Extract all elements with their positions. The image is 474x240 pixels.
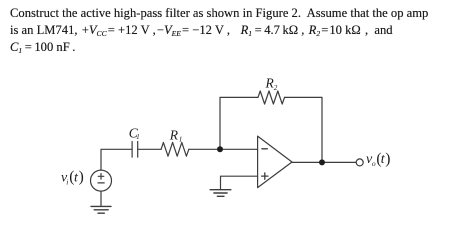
svg-text:R: R	[169, 128, 179, 143]
svg-text:): )	[79, 169, 84, 186]
svg-text:2: 2	[274, 84, 278, 92]
svg-text:1: 1	[136, 133, 140, 141]
svg-text:i: i	[66, 177, 68, 186]
svg-text:1: 1	[179, 136, 183, 144]
svg-text:): )	[385, 150, 390, 167]
svg-text:o: o	[372, 159, 376, 168]
